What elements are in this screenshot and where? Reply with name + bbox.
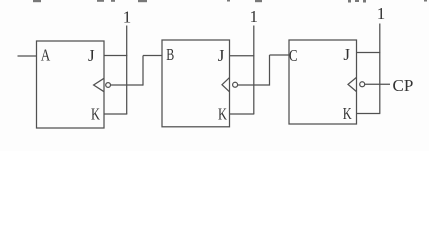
- cropped formula text fragment 6: [255, 0, 262, 2]
- flip-flop B box: [162, 40, 230, 127]
- wire: into B left output pin: [143, 55, 162, 57]
- cropped formula text fragment 8: [424, 0, 427, 2]
- svg-text:C: C: [289, 46, 298, 65]
- flip-flop C box: [289, 40, 357, 124]
- clock edge triangle of C: [348, 77, 357, 91]
- wire: J input of C to logic 1 rail: [357, 52, 381, 54]
- wire: riser from B clock to C output (vertical): [269, 55, 271, 86]
- svg-text:J: J: [218, 46, 225, 65]
- clock edge triangle of A: [94, 78, 104, 91]
- clock inversion bubble of C: [360, 82, 365, 87]
- wire: K input of C to logic 1 rail: [357, 113, 381, 115]
- wire: logic 1 vertical rail for C: [379, 24, 381, 114]
- cropped formula text fragment 3: [111, 0, 115, 2]
- wire: K input of A to logic 1 rail: [104, 113, 127, 115]
- cropped formula text fragment 1: [33, 0, 41, 2]
- flip-flop A box: [37, 41, 105, 128]
- wire: logic 1 vertical rail for A: [126, 26, 128, 115]
- wire: CP input to clock of C: [365, 83, 390, 85]
- svg-text:1: 1: [250, 7, 259, 26]
- wire: output Q of A (left dangling lead): [18, 55, 37, 57]
- wire: J input of B to logic 1 rail: [230, 55, 255, 57]
- cropped formula text fragment 4: [138, 0, 147, 2]
- svg-text:CP: CP: [393, 76, 414, 95]
- cropped formula text fragment 2: [97, 0, 104, 2]
- cropped formula text fragment 5: [227, 0, 230, 2]
- wire: into C left output pin: [270, 54, 290, 56]
- wire: J input of A to logic 1 rail: [104, 55, 127, 57]
- svg-text:K: K: [91, 105, 101, 124]
- wire: clock of A from Q of B (horizontal): [111, 84, 144, 86]
- wire: riser from A clock to B output (vertical): [142, 56, 144, 86]
- clock inversion bubble of A: [106, 83, 111, 88]
- svg-text:1: 1: [377, 4, 386, 23]
- svg-text:B: B: [166, 45, 174, 64]
- svg-text:K: K: [218, 105, 228, 124]
- svg-text:A: A: [41, 46, 51, 65]
- svg-text:J: J: [343, 45, 350, 64]
- wire: logic 1 vertical rail for B: [253, 26, 255, 115]
- svg-text:J: J: [88, 46, 95, 65]
- wire: K input of B to logic 1 rail: [230, 113, 255, 115]
- clock inversion bubble of B: [233, 82, 238, 87]
- wire: clock of B from Q of C (horizontal): [238, 84, 270, 86]
- svg-text:1: 1: [123, 7, 132, 26]
- svg-text:K: K: [343, 104, 353, 123]
- cropped formula text fragment 7 (4): [348, 0, 366, 3]
- clock edge triangle of B: [222, 78, 230, 92]
